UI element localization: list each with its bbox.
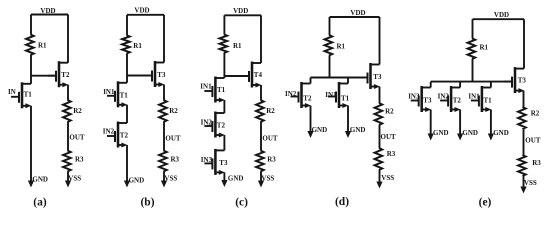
svg-text:(a): (a)	[33, 196, 47, 208]
svg-text:R2: R2	[266, 107, 275, 115]
svg-text:GND: GND	[433, 129, 449, 137]
svg-text:VDD: VDD	[40, 7, 55, 15]
svg-text:IN2: IN2	[285, 90, 297, 98]
svg-text:T3: T3	[157, 71, 166, 79]
svg-text:T1: T1	[24, 90, 33, 98]
svg-text:IN1: IN1	[200, 83, 212, 91]
svg-text:R1: R1	[133, 42, 142, 50]
svg-text:R2: R2	[73, 107, 82, 115]
svg-text:GND: GND	[228, 174, 244, 182]
svg-text:(c): (c)	[235, 196, 248, 208]
svg-text:T2: T2	[61, 71, 70, 79]
svg-text:T1: T1	[341, 94, 350, 102]
svg-text:OUT: OUT	[262, 135, 278, 143]
svg-text:R3: R3	[171, 155, 180, 163]
svg-text:T2: T2	[453, 97, 462, 105]
svg-text:OUT: OUT	[525, 136, 541, 144]
svg-text:T3: T3	[518, 77, 527, 85]
svg-text:R1: R1	[233, 42, 242, 50]
svg-text:VDD: VDD	[494, 11, 509, 19]
svg-text:IN3: IN3	[201, 156, 213, 164]
svg-text:VDD: VDD	[350, 9, 365, 17]
svg-text:IN1: IN1	[325, 91, 337, 99]
svg-text:T1: T1	[484, 97, 493, 105]
svg-text:R3: R3	[75, 155, 84, 163]
svg-text:VSS: VSS	[381, 174, 394, 182]
svg-text:T2: T2	[217, 121, 226, 129]
svg-text:T1: T1	[120, 91, 129, 99]
svg-text:IN2: IN2	[438, 92, 450, 100]
svg-text:T3: T3	[423, 97, 432, 105]
svg-text:R1: R1	[480, 43, 489, 51]
svg-text:IN1: IN1	[103, 88, 115, 96]
svg-text:(e): (e)	[479, 196, 492, 208]
svg-text:IN: IN	[8, 88, 16, 96]
svg-text:R2: R2	[531, 109, 540, 117]
svg-text:IN1: IN1	[468, 92, 480, 100]
svg-text:R1: R1	[38, 42, 47, 50]
svg-text:VSS: VSS	[261, 174, 274, 182]
svg-text:(d): (d)	[335, 196, 349, 208]
svg-text:R3: R3	[387, 150, 396, 158]
svg-text:R2: R2	[385, 108, 394, 116]
svg-text:OUT: OUT	[69, 134, 85, 142]
svg-text:(b): (b)	[140, 196, 154, 208]
svg-text:T3: T3	[219, 159, 228, 167]
svg-text:R3: R3	[532, 159, 541, 167]
svg-text:T2: T2	[303, 94, 312, 102]
svg-text:IN2: IN2	[103, 128, 115, 136]
svg-text:GND: GND	[350, 126, 366, 134]
svg-text:GND: GND	[493, 129, 509, 137]
svg-text:VDD: VDD	[233, 7, 248, 15]
svg-text:T1: T1	[217, 86, 226, 94]
svg-text:VDD: VDD	[134, 7, 149, 15]
svg-text:T2: T2	[120, 131, 129, 139]
svg-text:VSS: VSS	[68, 174, 81, 182]
svg-text:T4: T4	[254, 71, 263, 79]
svg-text:IN2: IN2	[201, 118, 213, 126]
svg-text:OUT: OUT	[165, 135, 181, 143]
svg-text:GND: GND	[312, 126, 328, 134]
svg-text:R1: R1	[337, 43, 346, 51]
svg-text:R2: R2	[169, 107, 178, 115]
svg-text:IN3: IN3	[408, 92, 420, 100]
svg-text:GND: GND	[32, 175, 48, 183]
svg-text:T3: T3	[373, 73, 382, 81]
svg-text:GND: GND	[462, 129, 478, 137]
svg-text:OUT: OUT	[381, 133, 397, 141]
svg-text:R3: R3	[267, 155, 276, 163]
svg-text:GND: GND	[129, 177, 145, 185]
svg-text:VSS: VSS	[524, 179, 537, 187]
svg-text:VSS: VSS	[164, 174, 177, 182]
